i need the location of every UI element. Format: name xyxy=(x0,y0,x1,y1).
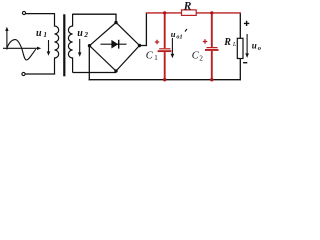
wire T2 to primary bottom xyxy=(25,73,55,75)
transformer secondary winding xyxy=(68,14,72,73)
svg-text:1: 1 xyxy=(154,54,158,62)
load resistor RL box xyxy=(237,38,243,58)
AC source sine graph vertical axis arrowhead xyxy=(5,27,8,31)
svg-text:u: u xyxy=(252,40,257,50)
node C1 bottom xyxy=(163,78,166,81)
svg-text:2: 2 xyxy=(199,54,203,62)
AC source sine graph horizontal axis xyxy=(3,47,39,49)
capacitor C1 plus sign xyxy=(155,40,160,45)
svg-text:u: u xyxy=(36,28,42,39)
node right vertex xyxy=(138,44,141,47)
AC source sine graph horizontal axis arrowhead xyxy=(37,47,41,50)
diode D cathode bar xyxy=(118,40,119,49)
svg-text:R: R xyxy=(183,0,192,12)
capacitor C1 bottom lead xyxy=(164,52,166,80)
minus sign output xyxy=(243,62,247,64)
arrow u1 xyxy=(48,40,50,53)
load resistor RL leads xyxy=(239,14,241,81)
resistor R box xyxy=(182,10,197,16)
wire right vertex to top rail riser xyxy=(140,14,147,46)
top rail (red) xyxy=(146,12,241,14)
wire left vertex down to bottom rail xyxy=(88,46,90,81)
wire secondary bottom to bridge bottom xyxy=(73,72,116,74)
capacitor C1 top lead xyxy=(164,13,166,48)
svg-text:o1: o1 xyxy=(176,34,182,41)
capacitor C2 bottom lead xyxy=(211,51,213,80)
svg-text:u: u xyxy=(171,29,176,39)
terminal T2 (bottom left) xyxy=(22,72,25,75)
sine wave u xyxy=(7,40,36,60)
transformer primary winding xyxy=(55,13,59,74)
node C1 top xyxy=(163,11,166,14)
svg-text:R: R xyxy=(223,37,231,48)
bottom rail xyxy=(89,79,241,81)
arrow u2 xyxy=(79,39,81,54)
svg-text:u: u xyxy=(77,28,83,39)
capacitor C2 plates xyxy=(207,47,218,48)
capacitor C1 plates xyxy=(159,48,170,49)
svg-text:L: L xyxy=(232,41,237,48)
capacitor C2 top lead xyxy=(211,13,213,47)
wire T1 to primary top xyxy=(26,13,55,15)
node left vertex xyxy=(88,44,91,47)
wire secondary top to bridge top xyxy=(73,14,116,22)
node top vertex xyxy=(114,21,117,24)
node C2 bottom xyxy=(210,78,213,81)
svg-text:1: 1 xyxy=(43,31,47,39)
svg-text:C: C xyxy=(146,51,154,62)
node C2 top xyxy=(210,11,213,14)
AC source sine graph vertical axis xyxy=(6,29,8,50)
transformer core xyxy=(63,14,65,76)
capacitor C2 plus sign xyxy=(203,39,208,44)
terminal T1 (top left) xyxy=(22,11,25,14)
diode D triangle xyxy=(111,40,118,49)
bridge rectifier diamond xyxy=(90,23,140,72)
diode D lead xyxy=(101,43,127,45)
svg-text:2: 2 xyxy=(83,31,88,39)
arrow uo xyxy=(246,34,248,55)
arrow uo1 xyxy=(171,38,173,55)
node bottom vertex xyxy=(114,69,117,72)
plus sign output xyxy=(244,21,249,26)
